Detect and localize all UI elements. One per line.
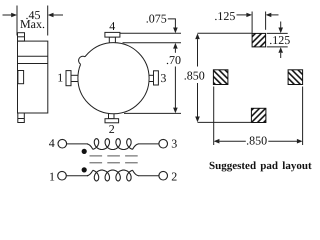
- schematic: bottom winding entry wire: [87, 170, 93, 175]
- side view: dimension extension line right: [47, 6, 49, 36]
- svg-text:Max.: Max.: [20, 17, 45, 31]
- schematic: bottom winding exit wire: [133, 170, 139, 175]
- schematic: bottom-right wire: [138, 175, 159, 177]
- svg-text:3: 3: [171, 136, 177, 150]
- dim .075 down arrow: [173, 28, 178, 34]
- side view: body outline: [18, 41, 48, 113]
- svg-text:2: 2: [171, 169, 177, 183]
- svg-text:.075: .075: [146, 12, 167, 26]
- schematic: pin 2 terminal circle: [159, 171, 168, 180]
- svg-text:.125: .125: [214, 9, 235, 23]
- svg-text:.850: .850: [184, 68, 205, 82]
- dim .850 left: bottom connector to pad: [198, 121, 252, 123]
- dim .075 leader elbow: [168, 19, 176, 28]
- top view: pin 3 cap: [154, 71, 159, 85]
- dim .125 top: right-point arrow: [237, 13, 253, 17]
- pad layout: bottom pad: [251, 108, 266, 122]
- side view: bottom lead tab divider: [18, 118, 25, 120]
- side view: left dimension arrow: [3, 13, 18, 18]
- dim .850 left: up arrow: [195, 33, 200, 39]
- schematic: bottom winding polarity dot: [82, 167, 87, 172]
- dim .125 top: left-point arrow: [266, 13, 279, 17]
- svg-text:.70: .70: [166, 53, 181, 67]
- top view: body circle: [78, 43, 149, 114]
- top view: pin 2 cap: [105, 119, 119, 123]
- schematic: top-right wire: [138, 143, 159, 145]
- svg-text:2: 2: [109, 122, 115, 136]
- dim .850 left: down arrow: [195, 117, 200, 123]
- dim .850 bottom: left arrow: [214, 139, 246, 144]
- svg-text:.850: .850: [246, 133, 267, 147]
- pad layout: left pad: [213, 70, 228, 85]
- top view: pin 3 stem: [149, 75, 154, 81]
- schematic: top winding entry wire: [87, 144, 93, 149]
- dim .850 bottom: left ext line: [213, 87, 215, 146]
- transformer core dashed lines: [90, 156, 138, 163]
- dim .850 left: upper line: [197, 39, 199, 66]
- svg-text:1: 1: [49, 169, 55, 183]
- top view: pin 1 stem: [71, 75, 79, 81]
- pad layout: right pad: [288, 70, 303, 85]
- dim .125 right: down arrow with stem: [278, 22, 283, 34]
- svg-text:4: 4: [109, 19, 115, 33]
- schematic: pin 3 terminal circle: [159, 139, 168, 148]
- top view: pin 4 stem: [109, 37, 115, 43]
- dim .850 left: top connector to pad: [198, 32, 253, 34]
- dim line at circle bottom: [124, 112, 181, 114]
- schematic: primary winding coil: [93, 139, 133, 150]
- top view: pin 1 cap: [66, 71, 71, 86]
- side view: side lead rectangle: [18, 71, 24, 84]
- top view: polarity bump: [79, 56, 87, 64]
- svg-text:Suggested pad layout: Suggested pad layout: [209, 160, 312, 172]
- schematic: bottom-left wire: [66, 175, 88, 177]
- dim .125 top: left ext line: [251, 12, 253, 33]
- svg-text:3: 3: [160, 71, 166, 85]
- side view: bottom lead tab: [18, 113, 25, 123]
- dim .125 right: top line: [267, 32, 288, 34]
- schematic: top winding polarity dot: [82, 149, 87, 154]
- dim .850 bottom: right ext line: [302, 87, 304, 146]
- dim .125 right: up arrow with stem: [278, 47, 283, 58]
- dim .70 up arrow: [173, 43, 178, 49]
- dim .125 top: right ext line: [265, 12, 267, 30]
- dim .70 down arrow: [173, 108, 178, 114]
- dim .70 upper stem: [174, 49, 176, 53]
- dim .125 right: bottom line: [267, 46, 288, 48]
- svg-text:4: 4: [49, 136, 55, 150]
- side view: body upper line: [18, 55, 48, 57]
- side view: top lead tab divider: [18, 36, 25, 38]
- schematic: secondary winding coil: [93, 170, 133, 181]
- top view: pin 4 cap: [105, 32, 120, 37]
- schematic: top-left wire: [67, 143, 88, 145]
- schematic: top winding exit wire: [133, 144, 139, 149]
- svg-text:.125: .125: [269, 33, 290, 47]
- schematic: pin 4 terminal circle: [58, 139, 67, 148]
- side view: top lead tab: [18, 33, 25, 41]
- dim line at lead cap top: [120, 32, 181, 34]
- dim .70 lower line: [174, 67, 176, 109]
- dim .850 bottom: right arrow: [268, 139, 302, 144]
- side view: dimension .45 Max extension line left: [16, 6, 18, 36]
- dim line at circle top: [123, 42, 182, 44]
- svg-text:1: 1: [57, 71, 63, 85]
- schematic: pin 1 terminal circle: [58, 171, 67, 180]
- side view: body lower line: [18, 63, 48, 65]
- top view: pin 2 stem: [109, 113, 115, 119]
- side view: right dimension arrow: [48, 13, 63, 18]
- dim .850 left: lower line: [197, 83, 199, 117]
- pad layout: top pad: [252, 33, 266, 47]
